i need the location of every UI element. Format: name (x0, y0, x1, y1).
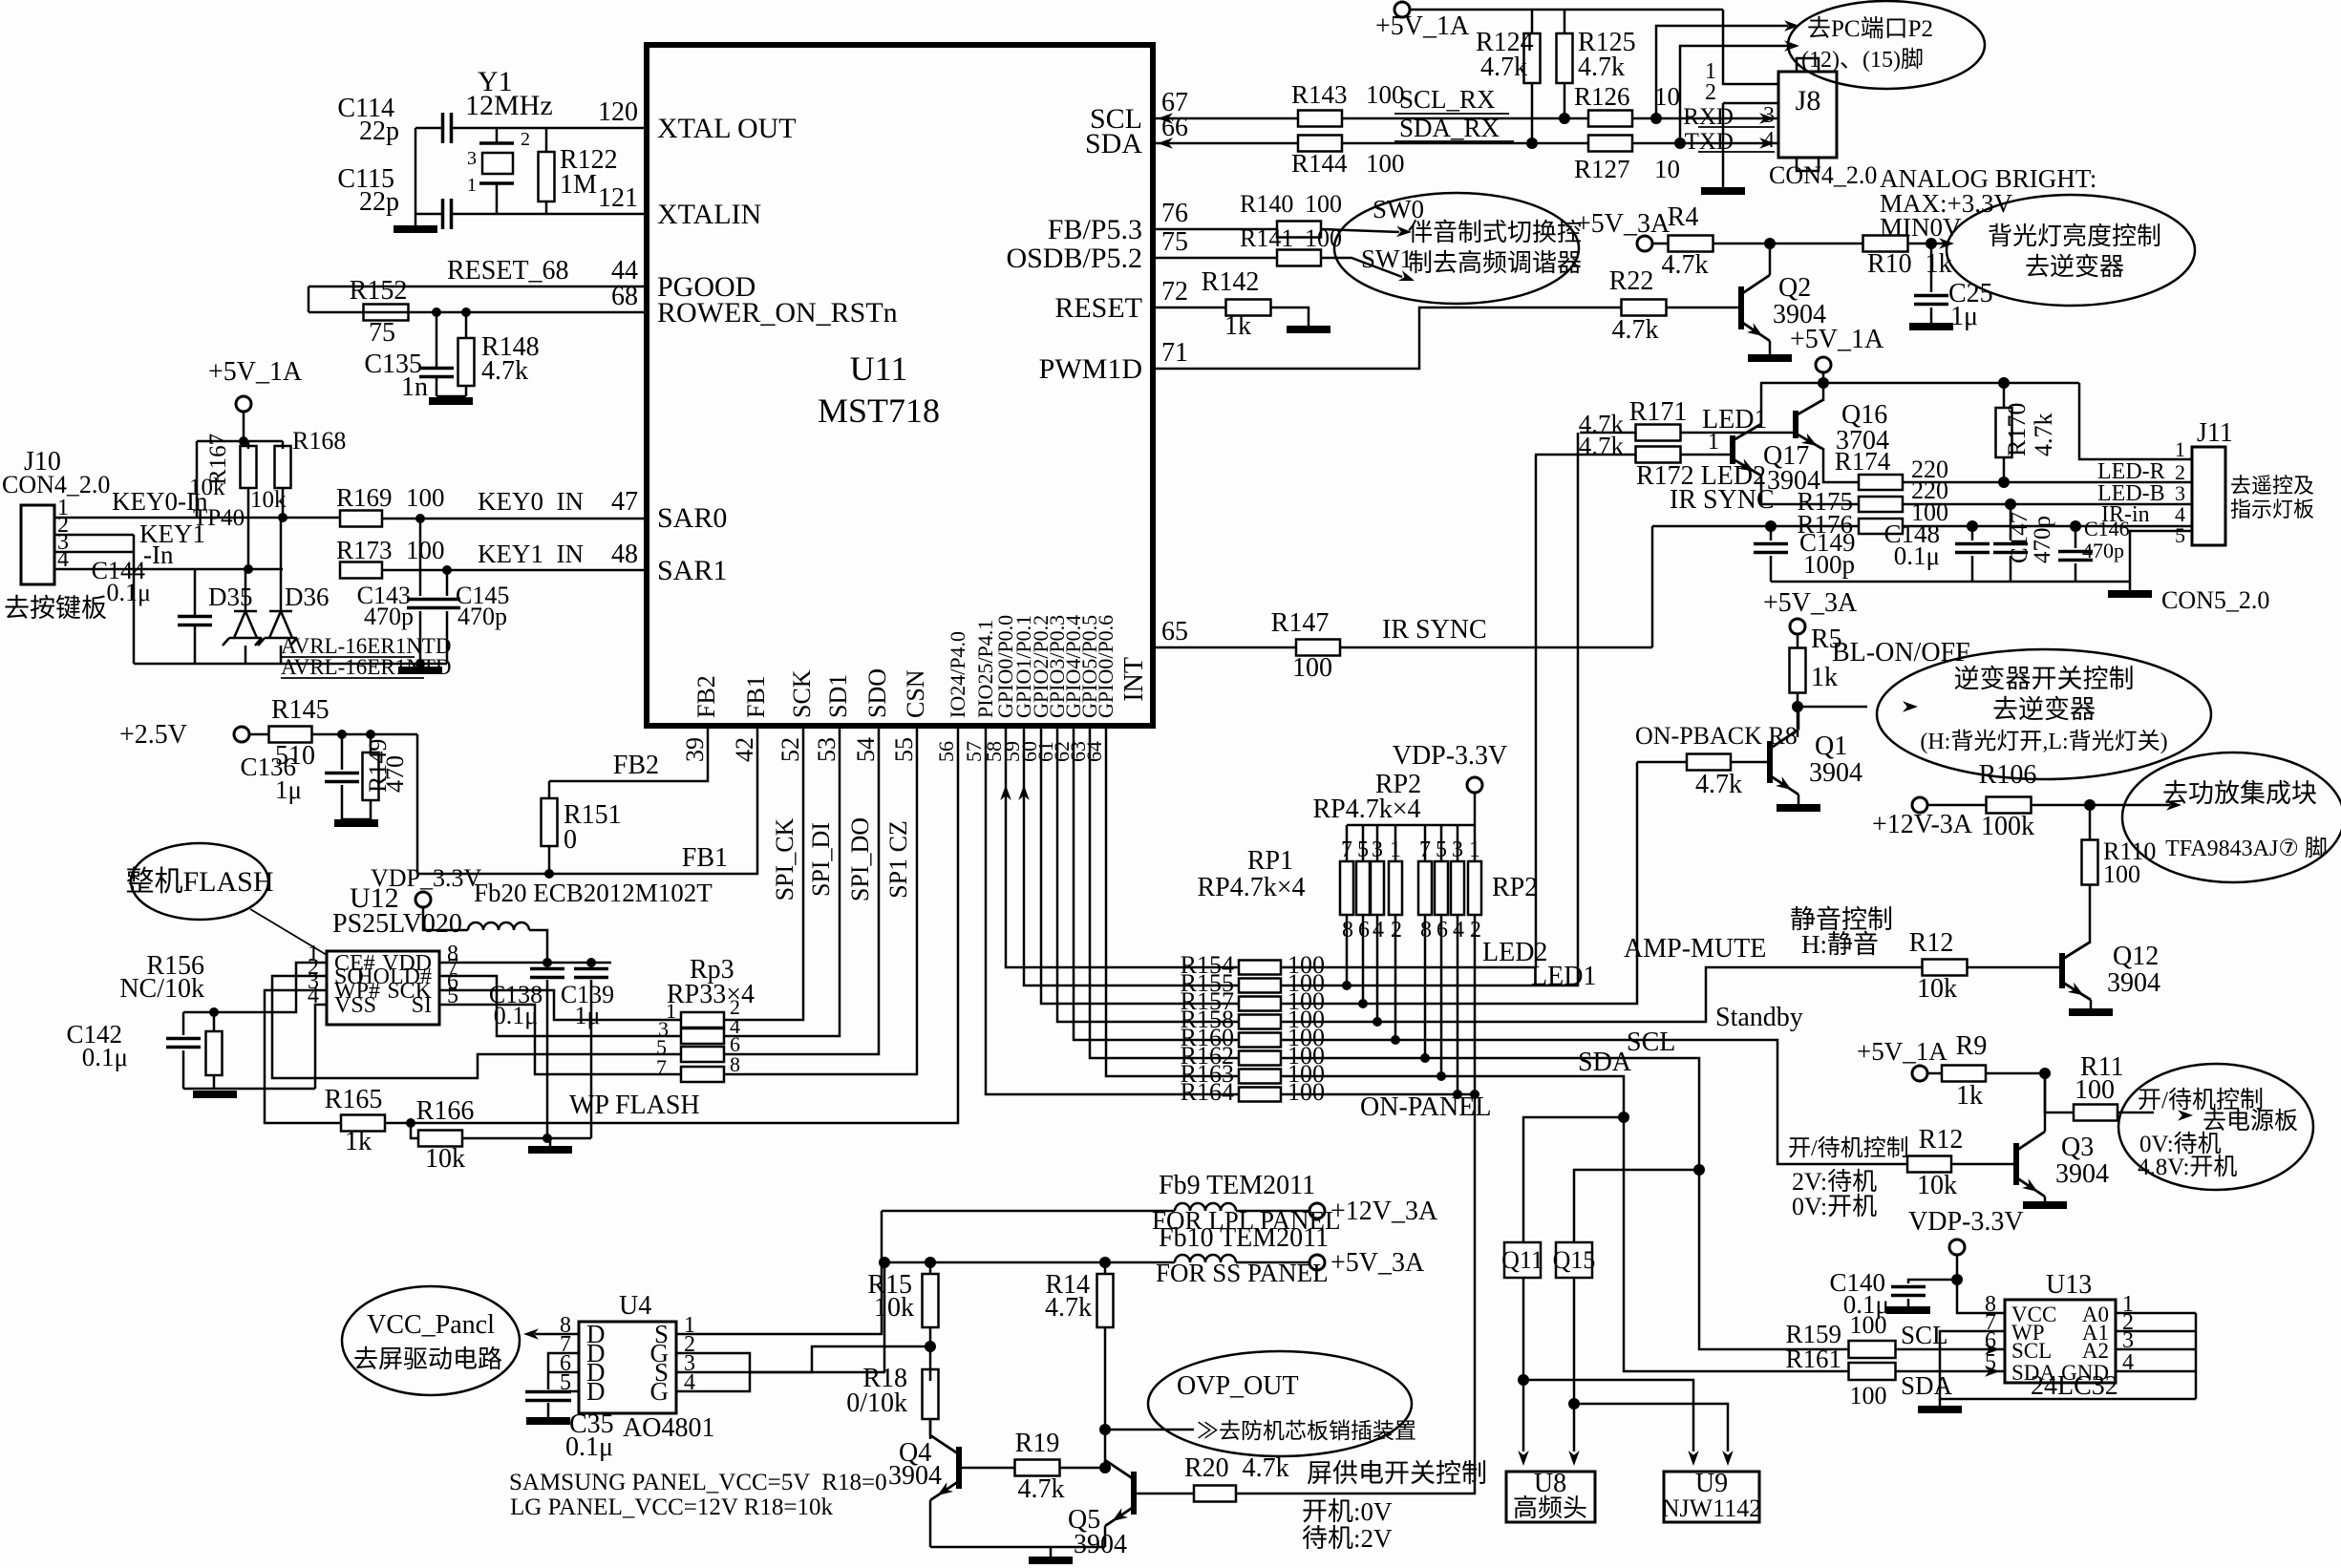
arrow to PC port 1 (1784, 20, 1799, 32)
svg-text:48: 48 (611, 540, 638, 569)
svg-text:R152: R152 (350, 276, 408, 306)
svg-text:U13: U13 (2046, 1270, 2092, 1300)
svg-text:4.7k: 4.7k (2030, 413, 2057, 457)
svg-text:D35: D35 (208, 583, 253, 611)
wire KEY0-In (54, 517, 283, 519)
callout ellipse VCC_Pancl (342, 1286, 520, 1395)
svg-text:指示灯板: 指示灯板 (2230, 498, 2314, 521)
svg-text:整机FLASH: 整机FLASH (125, 866, 273, 898)
wire pin to R158 (1057, 726, 1239, 1022)
svg-text:100: 100 (1850, 1311, 1887, 1339)
diode D36 (280, 518, 283, 611)
RP element 5 top wire (1424, 825, 1427, 861)
svg-text:100p: 100p (1803, 550, 1855, 579)
svg-text:100: 100 (2103, 860, 2140, 888)
wire LED-B (1903, 503, 2192, 506)
svg-text:D36: D36 (285, 583, 330, 611)
wire SCL to Q15 (1693, 1164, 1705, 1176)
capacitor C147 470p (2010, 504, 2012, 540)
wire Q2 collector (1769, 244, 1772, 275)
resistor R147 100 (1296, 640, 1340, 656)
transistor Q4 3904 (956, 1447, 962, 1489)
svg-text:72: 72 (1161, 277, 1188, 307)
svg-text:121: 121 (598, 183, 638, 213)
resistor R163 100 (1239, 1070, 1281, 1084)
resistor R159 100 (1849, 1341, 1896, 1358)
svg-text:VDP_3.3V: VDP_3.3V (371, 864, 482, 892)
svg-text:1: 1 (1390, 837, 1401, 862)
svg-text:0.1μ: 0.1μ (494, 1002, 538, 1029)
wire pin to R162 (1090, 726, 1239, 1058)
wire HOLD# net (439, 976, 681, 1036)
svg-text:3: 3 (467, 148, 477, 169)
resistor R170 4.7k (2003, 383, 2006, 409)
svg-text:+2.5V: +2.5V (119, 720, 187, 750)
svg-text:Q3: Q3 (2061, 1133, 2094, 1162)
svg-text:5: 5 (1357, 837, 1369, 862)
wire gnd drop (133, 535, 136, 664)
RP resistor element 5 (1418, 861, 1432, 915)
wire Q12 emitter (2090, 1000, 2093, 1008)
svg-text:PS25LV020: PS25LV020 (332, 909, 462, 939)
wire J10 pin2 (54, 534, 134, 537)
svg-text:1μ: 1μ (275, 775, 302, 804)
wire PGOOD / RESET_68 (309, 286, 647, 288)
wire PWM1D (1153, 307, 1622, 369)
svg-text:CON5_2.0: CON5_2.0 (2161, 586, 2269, 614)
svg-text:42: 42 (731, 737, 758, 762)
svg-text:KEY0 IN: KEY0 IN (478, 487, 584, 516)
svg-text:100: 100 (1305, 190, 1342, 218)
svg-text:1: 1 (2175, 437, 2185, 461)
wire U4 gates to R15/R18 node (676, 1353, 750, 1391)
transistor Q17 3904 (1730, 435, 1735, 464)
resistor R22 4.7k (1622, 300, 1667, 316)
svg-text:1k: 1k (345, 1127, 372, 1156)
resistor R144 100 (1298, 136, 1342, 152)
wire LED2 net (1281, 455, 1536, 967)
svg-text:55: 55 (890, 737, 918, 762)
wire 5V rail top (1410, 9, 1723, 11)
svg-text:R165: R165 (325, 1085, 383, 1114)
svg-text:10: 10 (1654, 82, 1680, 111)
svg-text:56: 56 (934, 741, 958, 762)
svg-text:R142: R142 (1202, 267, 1260, 297)
svg-text:3904: 3904 (1074, 1530, 1127, 1559)
ground C142/R156 (193, 1091, 237, 1098)
svg-text:R147: R147 (1271, 608, 1330, 638)
wire SO net (272, 976, 681, 1078)
wires U13 A0-A2/GND bus (2116, 1312, 2196, 1315)
RP drop wire (1457, 915, 1459, 1094)
wire key ground rail (134, 663, 447, 666)
crystal Y1 12MHz (496, 128, 499, 143)
svg-text:SPI_DO: SPI_DO (846, 817, 874, 901)
resistor R141 100 (1277, 250, 1321, 266)
svg-text:C147: C147 (2007, 512, 2032, 563)
svg-text:+5V_1A: +5V_1A (1375, 11, 1470, 41)
svg-text:FB1: FB1 (682, 843, 728, 873)
resistor R152 75 (364, 305, 409, 321)
resistor R154 100 (1239, 961, 1281, 975)
svg-text:NJW1142: NJW1142 (1662, 1494, 1761, 1522)
supply +12V-3A (1912, 797, 1927, 813)
svg-text:R171: R171 (1629, 397, 1688, 427)
wire to ground (415, 214, 417, 225)
arrow to PC port 2 (1784, 40, 1799, 52)
resistor R122 1M (545, 128, 548, 153)
svg-text:Q2: Q2 (1778, 273, 1811, 303)
wire Q2 emitter (1769, 341, 1772, 354)
block U8 tuner (1506, 1472, 1595, 1522)
resistor R155 100 (1239, 979, 1281, 993)
wire VCC (1957, 1255, 2005, 1313)
wire to inverter ctl (1798, 706, 1867, 709)
svg-text:≫去防机芯板销插装置: ≫去防机芯板销插装置 (1197, 1419, 1416, 1443)
wire U13 WP to gnd (1940, 1331, 2196, 1399)
capacitor C148 0.1u (1971, 526, 1974, 540)
arrow into RXD (1759, 113, 1775, 124)
resistor R110 100 (2084, 799, 2096, 811)
resistor R175 220 (1859, 497, 1903, 512)
wire J10 pin3 (54, 551, 134, 554)
svg-text:TFA9843AJ⑦ 脚: TFA9843AJ⑦ 脚 (2165, 836, 2328, 861)
wire Q1 emitter (1798, 795, 1800, 804)
wire FB2 net (549, 726, 708, 781)
svg-text:100: 100 (1366, 149, 1405, 178)
capacitor C140 0.1u (1951, 1274, 1963, 1285)
svg-text:IO24/P4.0: IO24/P4.0 (946, 631, 969, 718)
resistor R126 10 (1588, 111, 1632, 127)
svg-text:R173: R173 (336, 536, 393, 564)
resistor R176 100 (1859, 519, 1903, 534)
svg-text:LED1: LED1 (1531, 962, 1596, 991)
svg-text:+5V_3A: +5V_3A (1576, 209, 1671, 239)
svg-text:去PC端口P2: 去PC端口P2 (1807, 15, 1933, 42)
resistor R157 100 (1239, 997, 1281, 1011)
resistor R151 0 (548, 781, 551, 798)
svg-text:去遥控及: 去遥控及 (2230, 474, 2314, 498)
callout ellipse 去PC端口P2 (1788, 1, 1985, 89)
resistor R161 100 (1849, 1363, 1896, 1380)
svg-text:SW1: SW1 (1361, 244, 1413, 273)
resistor R12 10k (standby) (1907, 1156, 1951, 1173)
wire Q15 branch to U9 (1574, 1404, 1728, 1451)
svg-text:100: 100 (1850, 1382, 1887, 1409)
ground C25 (1909, 323, 1953, 330)
wire SDA net (1281, 1076, 1849, 1371)
svg-text:IR SYNC: IR SYNC (1670, 485, 1775, 515)
diode D35 (245, 569, 247, 611)
IC U11 MST718 body (647, 45, 1153, 726)
svg-text:3: 3 (1372, 837, 1383, 862)
svg-text:SDO: SDO (863, 668, 891, 718)
wire XTAL OUT (453, 127, 647, 130)
svg-text:A2: A2 (2082, 1339, 2109, 1363)
wire LED-R (1903, 481, 2192, 484)
svg-text:SCL: SCL (2011, 1339, 2052, 1363)
svg-text:SDA_RX: SDA_RX (1399, 114, 1500, 142)
transistor Q3 3904 (2013, 1143, 2019, 1185)
RP resistor element 8 (1468, 861, 1481, 915)
ground Q2 (1748, 354, 1792, 362)
svg-text:AMP-MUTE: AMP-MUTE (1624, 934, 1766, 964)
svg-text:去屏驱动电路: 去屏驱动电路 (353, 1346, 502, 1373)
svg-text:7: 7 (656, 1055, 667, 1079)
svg-text:120: 120 (598, 97, 638, 127)
svg-text:3904: 3904 (888, 1461, 942, 1491)
svg-text:7: 7 (1341, 837, 1352, 862)
capacitor C114 22p (443, 113, 452, 143)
wire SI net (439, 1005, 681, 1074)
RP resistor element 6 (1435, 861, 1448, 915)
svg-text:10k: 10k (1917, 1171, 1957, 1200)
capacitor C35 0.1u (525, 1392, 571, 1401)
svg-text:WP FLASH: WP FLASH (569, 1091, 700, 1120)
wire emitter rail (930, 1546, 1105, 1549)
ground R142 (1287, 326, 1330, 333)
svg-text:470p: 470p (2082, 539, 2124, 562)
svg-text:FOR SS PANEL: FOR SS PANEL (1156, 1259, 1329, 1287)
wire J8 pin1 (1723, 10, 1778, 84)
svg-text:1μ: 1μ (1950, 302, 1978, 331)
IC U12 PS25LV020 (327, 951, 439, 1025)
RP resistor element 1 (1340, 861, 1353, 915)
svg-text:RP4.7k×4: RP4.7k×4 (1197, 873, 1305, 902)
svg-text:5: 5 (1985, 1350, 1996, 1375)
wire OVP branch (1099, 1424, 1111, 1435)
pointer line (250, 909, 327, 955)
svg-text:2V:待机: 2V:待机 (1792, 1168, 1877, 1196)
resistor R158 100 (1239, 1015, 1281, 1029)
svg-text:制去高频调谐器: 制去高频调谐器 (1408, 249, 1582, 277)
resistor R11 100 (2045, 1073, 2074, 1112)
svg-text:R126: R126 (1574, 82, 1630, 111)
resistor R19 4.7k (959, 1467, 1014, 1470)
resistor R149 470 (366, 730, 375, 739)
wire VDD (439, 962, 611, 964)
svg-text:CON4_2.0: CON4_2.0 (1769, 161, 1877, 189)
svg-text:XTALIN: XTALIN (657, 199, 761, 230)
svg-text:SDA: SDA (1085, 128, 1142, 159)
wire KEY1-In (54, 568, 283, 571)
svg-text:R145: R145 (271, 695, 330, 725)
svg-text:ROWER_ON_RSTn: ROWER_ON_RSTn (657, 297, 898, 328)
svg-text:待机:2V: 待机:2V (1302, 1524, 1393, 1553)
svg-text:R4: R4 (1668, 202, 1699, 232)
ground J8 (1701, 187, 1745, 195)
wire AMP-MUTE net (1281, 967, 1922, 1022)
svg-text:SCL: SCL (1627, 1028, 1675, 1057)
svg-text:100k: 100k (1981, 812, 2034, 841)
svg-text:屏供电开关控制: 屏供电开关控制 (1307, 1459, 1487, 1488)
svg-text:+5V_1A: +5V_1A (1857, 1037, 1947, 1066)
svg-text:去电源板: 去电源板 (2203, 1108, 2298, 1134)
svg-text:8: 8 (730, 1052, 740, 1076)
svg-text:SDA: SDA (1901, 1371, 1953, 1400)
svg-text:H:静音: H:静音 (1801, 930, 1879, 959)
wire J11 pin5 (2130, 531, 2192, 582)
resistor R5 1k (1797, 634, 1799, 648)
svg-text:Fb10 TEM2011: Fb10 TEM2011 (1159, 1223, 1329, 1253)
svg-text:CON4_2.0: CON4_2.0 (2, 471, 110, 498)
wire SDA to Q11 (1618, 1112, 1629, 1123)
svg-text:VCC_Pancl: VCC_Pancl (367, 1310, 495, 1340)
svg-text:+12V_3A: +12V_3A (1330, 1197, 1438, 1226)
svg-text:R170: R170 (2003, 403, 2031, 456)
arrow into TXD (1759, 138, 1775, 149)
wire Q5 collector (1104, 1460, 1107, 1464)
wire J8 pin2 (1723, 102, 1778, 105)
svg-text:D: D (586, 1377, 606, 1406)
svg-text:SPI_DI: SPI_DI (807, 822, 835, 897)
svg-text:PWM1D: PWM1D (1039, 353, 1142, 385)
svg-text:3: 3 (1452, 837, 1463, 862)
RP element 6 top wire (1440, 825, 1443, 861)
ground U13 (1918, 1406, 1962, 1413)
wire Q17 collector (1760, 383, 1763, 424)
wire Q16 emitter to R174 (1823, 450, 1859, 482)
Rp3 element 3 (681, 1047, 724, 1062)
svg-text:R106: R106 (1979, 760, 2037, 790)
svg-text:Fb20 ECB2012M102T: Fb20 ECB2012M102T (474, 879, 713, 907)
svg-text:R143: R143 (1291, 80, 1348, 109)
svg-text:75: 75 (369, 318, 395, 348)
svg-text:KEY1 IN: KEY1 IN (478, 540, 584, 568)
svg-text:R19: R19 (1015, 1429, 1060, 1458)
RP resistor element 7 (1451, 861, 1464, 915)
arrow to amp (2166, 799, 2181, 811)
ground caps (2108, 590, 2152, 598)
wire ON-PBACK net (1281, 762, 1637, 1004)
wire Q4 collector (929, 1419, 932, 1435)
callout ellipse OVP_OUT (1148, 1351, 1412, 1456)
Rp3 element 1 (681, 1012, 724, 1028)
capacitor C135 1n (432, 307, 441, 317)
svg-text:R9: R9 (1956, 1031, 1988, 1061)
ground Q1 (1777, 804, 1820, 812)
transistor Q16 3704 (1793, 411, 1798, 438)
svg-text:U11: U11 (850, 350, 908, 388)
ground Q12 (2069, 1008, 2113, 1016)
capacitor C149 100p (1770, 526, 1773, 540)
svg-text:5: 5 (1436, 837, 1447, 862)
capacitor C25 1u (1926, 238, 1937, 249)
RP resistor element 4 (1389, 861, 1402, 915)
callout ellipse 背光灯亮度控制 (1947, 195, 2195, 306)
wire LED1 net (1281, 433, 1578, 985)
svg-text:Q11: Q11 (1501, 1246, 1543, 1274)
svg-text:R166: R166 (416, 1096, 475, 1126)
wire Q5 emitter (1104, 1526, 1107, 1547)
svg-text:OVP_OUT: OVP_OUT (1177, 1371, 1299, 1401)
svg-text:INT: INT (1119, 657, 1149, 702)
wire IR SYNC up (1651, 526, 1654, 647)
svg-text:去按键板: 去按键板 (4, 594, 107, 623)
svg-text:FB/P5.3: FB/P5.3 (1048, 214, 1142, 245)
RP drop wire (1474, 915, 1477, 1094)
callout ellipse 开/待机控制 (2118, 1064, 2313, 1190)
svg-text:10: 10 (1654, 155, 1680, 183)
wire ON-PANEL net (1236, 1094, 1475, 1494)
svg-text:54: 54 (852, 737, 880, 762)
ground C140 (1886, 1306, 1930, 1314)
svg-text:SDA: SDA (1578, 1048, 1632, 1077)
svg-text:R164: R164 (1181, 1078, 1234, 1106)
block U4 AO4801 (579, 1322, 676, 1413)
wire pin to R154 (1006, 726, 1239, 967)
transistor Q1 3904 (1767, 741, 1773, 783)
wire IR-in (1903, 525, 2192, 528)
svg-text:22p: 22p (359, 117, 399, 146)
svg-text:(H:背光灯开,L:背光灯关): (H:背光灯开,L:背光灯关) (1920, 729, 2167, 754)
svg-text:3904: 3904 (1809, 758, 1862, 788)
resistor R15 10k (925, 1257, 936, 1268)
wire pin to R157 (1041, 726, 1239, 1004)
svg-text:逆变器开关控制: 逆变器开关控制 (1954, 665, 2135, 693)
resistor R164 100 (1239, 1088, 1281, 1102)
transistor box Q11 (1504, 1242, 1541, 1278)
svg-text:4.7k: 4.7k (1612, 315, 1659, 345)
RP element 3 top wire (1376, 825, 1379, 861)
svg-text:C146: C146 (2084, 517, 2130, 540)
svg-text:SCL_RX: SCL_RX (1399, 85, 1496, 114)
callout ellipse 伴音制式切换 (1334, 193, 1579, 304)
resistor R172 4.7k (1636, 447, 1681, 463)
resistor R171 4.7k (1636, 425, 1681, 441)
svg-text:RXD: RXD (1683, 104, 1734, 130)
svg-text:FB2: FB2 (613, 751, 659, 780)
resistor R127 10 (1588, 136, 1632, 152)
svg-text:4: 4 (684, 1370, 695, 1395)
resistor R160 100 (1239, 1033, 1281, 1048)
resistor R168 10k (282, 441, 285, 449)
arrow to backlight (1939, 238, 1954, 249)
wire Q17 emitter to R175 (1761, 476, 1859, 504)
resistor R167 10k (247, 441, 250, 449)
svg-text:100: 100 (1292, 653, 1332, 683)
svg-text:OSDB/P5.2: OSDB/P5.2 (1006, 243, 1142, 274)
svg-text:1k: 1k (1224, 311, 1251, 341)
svg-text:TP40: TP40 (193, 505, 245, 531)
svg-text:470p: 470p (364, 603, 414, 630)
svg-text:+12V-3A: +12V-3A (1872, 810, 1973, 839)
block U9 NJW1142 (1664, 1472, 1759, 1522)
svg-text:IR SYNC: IR SYNC (1382, 615, 1487, 645)
svg-text:0.1μ: 0.1μ (1894, 541, 1940, 570)
wire J11 pin1 (2079, 383, 2192, 459)
svg-text:RESET_68: RESET_68 (447, 256, 569, 286)
svg-text:Standby: Standby (1715, 1003, 1803, 1032)
resistor R143 100 (1298, 111, 1342, 127)
svg-text:SCK: SCK (788, 669, 816, 718)
svg-text:10k: 10k (189, 475, 225, 500)
capacitor C144 0.1u (194, 569, 197, 615)
RP drop wire (1346, 915, 1349, 985)
svg-text:SAMSUNG PANEL_VCC=5V R18=0: SAMSUNG PANEL_VCC=5V R18=0 (509, 1470, 887, 1495)
resistor R145 510 (249, 733, 268, 736)
RP element 2 top wire (1362, 825, 1365, 861)
RP drop wire (1376, 915, 1379, 1022)
resistor R166 10k (406, 1118, 415, 1128)
svg-text:4.7k: 4.7k (1480, 53, 1527, 82)
wire pin to R160 (1074, 726, 1239, 1040)
wire to J8 pin3 (1633, 117, 1778, 120)
svg-text:VDP-3.3V: VDP-3.3V (1908, 1207, 2024, 1237)
svg-text:3904: 3904 (2055, 1159, 2109, 1189)
callout ellipse 去功放集成块 (2122, 752, 2341, 882)
ground Q3 (2023, 1201, 2067, 1209)
